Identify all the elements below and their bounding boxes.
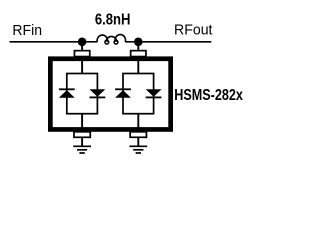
diode D3 (cathode up) (115, 88, 131, 97)
wire: right vertical stub from node to diode pair 2 (137, 42, 139, 74)
wire: left bottom stub from diode pair 1 to ground (81, 114, 83, 147)
package outline U1 HSMS-282x (50, 59, 170, 130)
svg-text:RFin: RFin (12, 22, 42, 39)
node A junction dot (input) (78, 38, 87, 47)
wire: RFout output line (138, 41, 211, 43)
wire: left vertical stub from node to diode pair 1 (81, 42, 83, 74)
diode D1 (cathode up) (59, 88, 75, 97)
wire: RFin input line (10, 41, 83, 43)
diode pair 1 branch loop (67, 74, 98, 114)
svg-text:HSMS-282x: HSMS-282x (174, 87, 243, 104)
pin 1 (top left package lead) (74, 51, 89, 57)
node B junction dot (output) (134, 38, 143, 47)
diode D4 (cathode down) (146, 89, 162, 98)
pin 3 (bottom left package lead) (74, 132, 90, 138)
svg-text:RFout: RFout (174, 22, 213, 39)
svg-text:6.8nH: 6.8nH (95, 12, 131, 29)
inductor L1 6.8nH (82, 35, 138, 44)
ground symbol right (129, 146, 147, 153)
pin 2 (top right package lead) (131, 51, 146, 57)
diode pair 2 branch loop (123, 74, 154, 114)
ground symbol left (73, 146, 91, 153)
wire: right bottom stub from diode pair 2 to ground (137, 114, 139, 147)
diode D2 (cathode down) (90, 89, 106, 98)
pin 4 (bottom right package lead) (130, 132, 146, 138)
